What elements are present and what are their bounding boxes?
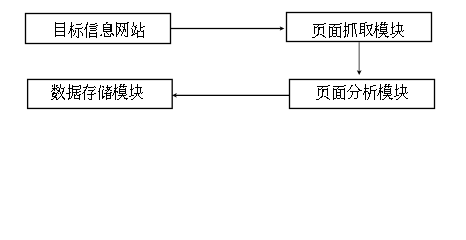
label: page analysis module: [316, 84, 408, 100]
arrowhead: into box3: [357, 70, 362, 75]
wire: box1 to box2: [171, 28, 281, 30]
box: page crawl module: [287, 13, 432, 42]
label: data storage module: [51, 84, 143, 100]
label: page crawl module: [312, 22, 404, 38]
arrowhead: into box4: [172, 93, 177, 98]
wire: box2 to box3: [358, 42, 360, 71]
box: page analysis module: [290, 79, 435, 108]
box: data storage module: [28, 79, 173, 108]
wire: box3 to box4: [176, 94, 290, 96]
arrowhead: into box2: [280, 26, 285, 30]
box: target info website: [26, 14, 171, 44]
label: target info website: [55, 22, 145, 38]
